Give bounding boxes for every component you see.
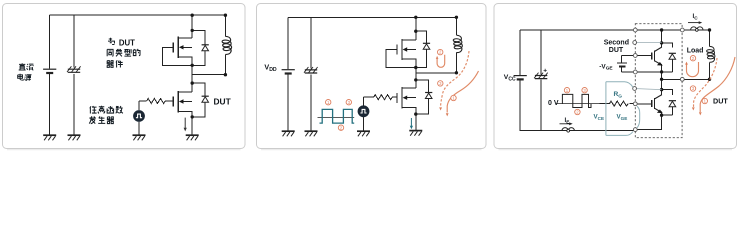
svg-text:Load: Load bbox=[687, 48, 704, 55]
svg-text:+: + bbox=[543, 68, 547, 75]
svg-text:DUT: DUT bbox=[609, 47, 624, 54]
svg-text:DUT: DUT bbox=[713, 96, 728, 105]
svg-text:Second: Second bbox=[604, 40, 629, 47]
svg-text:0 V: 0 V bbox=[548, 100, 559, 107]
